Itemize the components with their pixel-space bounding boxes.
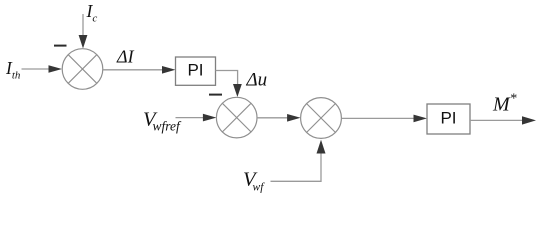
svg-text:ΔI: ΔI xyxy=(116,47,135,67)
multiplier junction M1 circle with X xyxy=(301,98,342,139)
wire PI2 output xyxy=(470,119,524,121)
wire S1 output to PI1 xyxy=(103,69,164,71)
arrowhead into S2 from left xyxy=(203,114,217,122)
arrowhead into PI1 xyxy=(162,66,176,74)
block PI1 xyxy=(176,57,216,85)
svg-text:M*: M* xyxy=(492,92,517,116)
svg-text:Ic: Ic xyxy=(86,1,98,25)
minus sign on S1 top input xyxy=(54,45,67,47)
svg-text:PI: PI xyxy=(187,61,203,80)
arrowhead into S1 from left xyxy=(49,65,63,73)
svg-text:Ith: Ith xyxy=(5,58,21,82)
arrowhead into M1 from left xyxy=(287,114,301,122)
arrowhead into M1 from bottom xyxy=(317,140,326,154)
arrowhead into S2 from top xyxy=(233,84,242,97)
svg-text:Δu: Δu xyxy=(246,70,268,91)
svg-text:PI: PI xyxy=(440,109,456,128)
arrowhead into PI2 xyxy=(414,115,428,123)
wire Ith horizontal xyxy=(22,68,51,70)
wire Vwfref to S2 xyxy=(176,117,205,119)
svg-text:Vwf: Vwf xyxy=(243,169,265,194)
block PI2 xyxy=(427,104,470,134)
minus sign on S2 top input xyxy=(209,94,222,96)
arrowhead output terminal xyxy=(522,116,536,124)
wire Vwf right then up to M1 xyxy=(271,153,322,181)
svg-text:Vwfref: Vwfref xyxy=(143,109,182,134)
wire PI1 output right then down to S2 xyxy=(216,71,238,87)
wire Ic vertical drop xyxy=(82,14,84,37)
arrowhead into summing junction S1 from top xyxy=(79,35,88,49)
summing junction S2 circle with X xyxy=(216,97,257,138)
summing junction S1 circle with X xyxy=(62,49,103,90)
wire S2 output to M1 xyxy=(257,117,289,119)
wire M1 output to PI2 xyxy=(342,117,416,119)
